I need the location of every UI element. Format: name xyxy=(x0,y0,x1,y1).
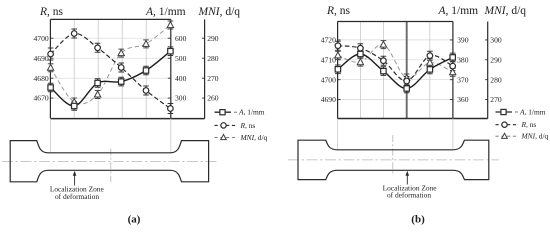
panel-b: legend item MNI,d/q xyxy=(496,135,519,137)
panel-a: error bars xyxy=(48,48,54,60)
panel-b: legend item A,1/mm xyxy=(496,111,513,113)
panel-b: A series curve (dark solid) xyxy=(338,54,453,89)
panel-b: plot frame xyxy=(338,22,453,119)
specimen-a: projection lines from chart xyxy=(50,119,170,153)
panel-a: vertical gridlines xyxy=(74,19,146,118)
panel-b: MNI triangle markers xyxy=(335,52,341,58)
svg-text:4700: 4700 xyxy=(321,75,336,84)
specimen-b: dogbone outline xyxy=(298,140,489,179)
specimen-a: dogbone outline xyxy=(10,141,208,182)
svg-text:R, ns: R, ns xyxy=(326,5,351,17)
panel-a: R circle markers xyxy=(48,51,54,57)
specimen-a: vertical centerline xyxy=(110,149,112,183)
panel-a: horizontal gridlines xyxy=(50,38,170,98)
svg-text:400: 400 xyxy=(175,74,187,83)
svg-text:A, 1/mm: A, 1/mm xyxy=(238,108,265,117)
svg-text:R, ns: R, ns xyxy=(240,121,256,130)
panel-b: axis ticks xyxy=(338,40,488,100)
panel-a: plot frame xyxy=(50,19,170,118)
panel-a: bottom frame to MNI axis xyxy=(50,118,204,120)
svg-text:MNI, d/q: MNI, d/q xyxy=(240,133,268,142)
svg-text:600: 600 xyxy=(175,34,187,43)
panel-b: A square markers xyxy=(335,67,340,72)
svg-text:4670: 4670 xyxy=(34,94,49,103)
panel-a: axis ticks xyxy=(50,38,204,98)
panel-b: bottom frame to MNI axis xyxy=(338,118,488,120)
svg-text:390: 390 xyxy=(457,36,469,45)
svg-text:MNI, d/q: MNI, d/q xyxy=(521,132,549,141)
panel-a: MNI series curve (gray dashed) xyxy=(51,25,171,104)
svg-text:290: 290 xyxy=(207,34,219,43)
panel-a: R series curve (dark dashed) xyxy=(51,33,171,108)
panel-b: MNI series curve (gray dashed) xyxy=(338,44,453,78)
svg-text:4690: 4690 xyxy=(321,95,336,104)
svg-text:280: 280 xyxy=(207,54,219,63)
panel-b: error bars xyxy=(335,41,341,50)
svg-text:of deformation: of deformation xyxy=(387,190,431,199)
panel-b: vertical gridlines xyxy=(361,22,430,119)
panel-b: R series curve (dark dashed) xyxy=(338,46,453,81)
svg-text:A, 1/mm: A, 1/mm xyxy=(519,108,546,117)
panel-b: horizontal gridlines xyxy=(338,40,453,100)
svg-text:500: 500 xyxy=(175,54,187,63)
panel-a: MNI axis xyxy=(204,19,206,118)
specimen-a: horizontal centerline xyxy=(2,160,219,162)
panel-a: MNI triangle markers xyxy=(47,64,53,70)
svg-text:A, 1/mm: A, 1/mm xyxy=(145,6,186,18)
svg-text:4680: 4680 xyxy=(34,74,49,83)
svg-text:of deformation: of deformation xyxy=(55,192,99,201)
svg-text:4700: 4700 xyxy=(34,34,49,43)
svg-text:A, 1/mm: A, 1/mm xyxy=(438,5,479,17)
svg-text:4690: 4690 xyxy=(34,54,49,63)
svg-text:R, ns: R, ns xyxy=(521,120,537,129)
specimen-b: vertical centerline xyxy=(392,135,394,176)
svg-text:(b): (b) xyxy=(411,214,425,226)
svg-text:MNI, d/q: MNI, d/q xyxy=(484,5,527,17)
svg-text:270: 270 xyxy=(490,95,502,104)
panel-a: legend item R,ns xyxy=(215,124,238,126)
svg-text:270: 270 xyxy=(207,74,219,83)
panel-a: A square markers xyxy=(48,85,53,90)
svg-text:290: 290 xyxy=(490,55,502,64)
panel-a: A series curve (dark solid) xyxy=(51,51,171,106)
svg-text:370: 370 xyxy=(457,75,469,84)
panel-a: legend item A,1/mm xyxy=(215,111,232,113)
svg-text:R, ns: R, ns xyxy=(39,6,64,18)
svg-text:300: 300 xyxy=(490,36,502,45)
svg-text:4720: 4720 xyxy=(321,36,336,45)
panel-b: R circle markers xyxy=(335,43,341,49)
svg-text:(a): (a) xyxy=(128,214,141,226)
panel-a: legend item MNI,d/q xyxy=(215,136,238,138)
specimen-b: horizontal centerline xyxy=(288,159,499,161)
svg-text:4710: 4710 xyxy=(321,55,336,64)
svg-text:MNI, d/q: MNI, d/q xyxy=(198,6,241,18)
specimen-a: localization arrow xyxy=(74,175,76,186)
svg-text:300: 300 xyxy=(175,94,187,103)
panel-b: MNI axis xyxy=(487,22,489,119)
panel-b: localization-zone gridline (dark) xyxy=(406,22,408,119)
svg-text:280: 280 xyxy=(490,75,502,84)
svg-text:380: 380 xyxy=(457,55,469,64)
svg-text:360: 360 xyxy=(457,95,469,104)
specimen-b: localization arrow xyxy=(406,175,408,185)
svg-text:260: 260 xyxy=(207,94,219,103)
specimen-b: projection lines from chart xyxy=(338,119,453,150)
panel-b: legend item R,ns xyxy=(496,124,519,126)
